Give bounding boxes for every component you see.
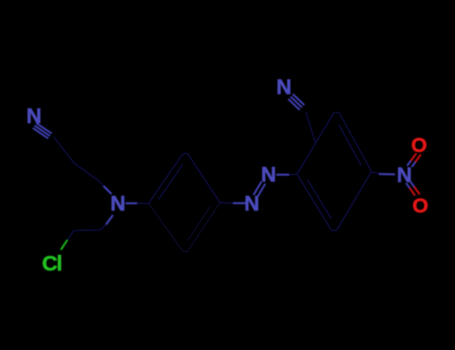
svg-text:N: N bbox=[276, 76, 291, 99]
double bond N6=O-down bbox=[406, 182, 420, 196]
wire Cd-Cl dark half bbox=[67, 231, 74, 241]
triple bond C2#N5 (right nitrile) bbox=[288, 94, 304, 110]
wire ringA-N3 dark part bbox=[220, 202, 233, 205]
ring B inner double-bond line upper-right bbox=[339, 124, 362, 165]
svg-text:N: N bbox=[110, 192, 125, 215]
wire ringA-N3 blue part bbox=[233, 202, 246, 204]
wire Ca-N2 dark half bbox=[98, 180, 104, 186]
wire N2-Cc blue half (chloroethyl) bbox=[106, 215, 113, 225]
wire N2-ringA dark half bbox=[137, 202, 149, 204]
wire Cb-Ca bbox=[74, 163, 98, 180]
wire ringB-C2 (benzonitrile bond) bbox=[306, 112, 316, 144]
wire Ca-N2 blue half bbox=[104, 186, 112, 194]
svg-text:N: N bbox=[261, 164, 276, 187]
ring A inner double-bond line upper-left bbox=[159, 164, 183, 199]
ring A inner double-bond line lower-right bbox=[187, 207, 210, 241]
wire N4-ringB blue half bbox=[276, 174, 289, 176]
wire Cd-Cl green half bbox=[61, 240, 68, 250]
benzene ring B (right) bbox=[297, 113, 372, 231]
wire N4-ringB dark half bbox=[289, 173, 297, 176]
wire C1-Cb bbox=[54, 137, 75, 164]
svg-text:O: O bbox=[412, 195, 428, 218]
wire N2-Cc dark half bbox=[100, 225, 106, 231]
wire Cc-Cd bbox=[74, 229, 100, 232]
svg-text:O: O bbox=[411, 134, 427, 157]
svg-text:Cl: Cl bbox=[42, 252, 62, 276]
wire ringB-N6 blue half bbox=[379, 173, 395, 175]
double bond N6=O-up bbox=[407, 153, 421, 167]
svg-text:N: N bbox=[26, 105, 41, 128]
benzene ring A (central) bbox=[149, 154, 221, 204]
ring B inner double-bond line lower-left bbox=[307, 179, 331, 219]
azo double bond N3=N4 bbox=[254, 182, 266, 198]
wire N2-ringA blue half bbox=[126, 202, 138, 204]
triple bond C1#N1 (left nitrile) bbox=[33, 123, 52, 139]
svg-text:N: N bbox=[397, 164, 412, 187]
wire ringB-N6 dark half bbox=[372, 172, 380, 174]
